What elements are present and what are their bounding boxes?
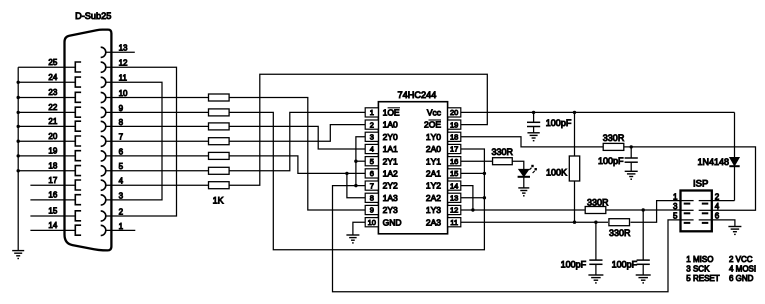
svg-text:2: 2 — [715, 192, 720, 201]
svg-text:100K: 100K — [546, 168, 567, 178]
svg-text:4: 4 — [370, 145, 374, 154]
svg-text:100pF: 100pF — [598, 156, 624, 166]
svg-text:25: 25 — [48, 58, 57, 67]
svg-text:8: 8 — [119, 118, 124, 127]
svg-text:17: 17 — [48, 176, 57, 185]
svg-text:10: 10 — [119, 89, 128, 98]
svg-text:20: 20 — [450, 108, 458, 117]
svg-text:5: 5 — [119, 162, 124, 171]
svg-text:13: 13 — [450, 194, 458, 203]
svg-text:4: 4 — [119, 177, 124, 186]
svg-text:2OE: 2OE — [424, 120, 441, 130]
svg-text:9: 9 — [370, 206, 374, 215]
svg-text:18: 18 — [48, 161, 57, 170]
svg-text:14: 14 — [48, 221, 57, 230]
svg-text:1Y3: 1Y3 — [426, 205, 441, 215]
svg-text:12: 12 — [450, 206, 458, 215]
svg-text:7: 7 — [370, 181, 374, 190]
svg-text:1Y0: 1Y0 — [426, 132, 441, 142]
svg-text:19: 19 — [48, 147, 57, 156]
svg-text:3: 3 — [673, 202, 678, 211]
svg-text:D-Sub25: D-Sub25 — [75, 11, 111, 21]
svg-text:14: 14 — [450, 181, 458, 190]
svg-text:1Y2: 1Y2 — [426, 181, 441, 191]
svg-text:2: 2 — [370, 120, 374, 129]
svg-text:7: 7 — [119, 133, 124, 142]
svg-text:5: 5 — [673, 212, 678, 221]
svg-text:330R: 330R — [609, 228, 631, 238]
svg-text:20: 20 — [48, 132, 57, 141]
svg-text:22: 22 — [48, 103, 57, 112]
svg-text:330R: 330R — [492, 147, 514, 157]
svg-text:2Y2: 2Y2 — [383, 181, 398, 191]
svg-text:2Y3: 2Y3 — [383, 205, 398, 215]
svg-text:Vcc: Vcc — [427, 108, 442, 118]
svg-text:2Y0: 2Y0 — [383, 132, 398, 142]
svg-text:1 MISO: 1 MISO — [686, 255, 713, 264]
svg-text:2Y1: 2Y1 — [383, 156, 398, 166]
svg-text:1A0: 1A0 — [383, 120, 398, 130]
svg-text:15: 15 — [48, 207, 57, 216]
svg-text:1A3: 1A3 — [383, 193, 398, 203]
svg-text:2A1: 2A1 — [426, 169, 441, 179]
svg-text:2: 2 — [119, 207, 124, 216]
svg-text:6 GND: 6 GND — [729, 274, 754, 283]
svg-text:12: 12 — [119, 59, 128, 68]
svg-text:11: 11 — [119, 74, 128, 83]
svg-text:2 VCC: 2 VCC — [729, 255, 753, 264]
svg-text:13: 13 — [119, 44, 128, 53]
svg-text:100pF: 100pF — [561, 260, 587, 270]
svg-text:1N4148: 1N4148 — [697, 157, 729, 167]
svg-text:ISP: ISP — [693, 179, 708, 190]
svg-text:4: 4 — [715, 202, 720, 211]
svg-text:74HC244: 74HC244 — [398, 90, 437, 100]
svg-text:24: 24 — [48, 73, 57, 82]
svg-text:6: 6 — [370, 169, 374, 178]
svg-text:1OE: 1OE — [383, 108, 400, 118]
svg-text:330R: 330R — [603, 133, 625, 143]
svg-text:2A0: 2A0 — [426, 144, 441, 154]
svg-text:GND: GND — [383, 217, 402, 227]
svg-text:1: 1 — [119, 222, 124, 231]
svg-text:6: 6 — [119, 147, 124, 156]
svg-text:1Y1: 1Y1 — [426, 156, 441, 166]
svg-text:15: 15 — [450, 169, 458, 178]
svg-text:3: 3 — [119, 191, 124, 200]
svg-text:5 RESET: 5 RESET — [686, 274, 719, 283]
svg-text:4 MOSI: 4 MOSI — [729, 265, 756, 274]
svg-text:330R: 330R — [587, 197, 609, 207]
svg-text:10: 10 — [368, 218, 376, 227]
svg-text:1: 1 — [370, 108, 374, 117]
svg-text:3: 3 — [370, 133, 374, 142]
svg-text:1K: 1K — [213, 195, 224, 205]
svg-text:21: 21 — [48, 117, 57, 126]
svg-text:9: 9 — [119, 104, 124, 113]
svg-text:1A2: 1A2 — [383, 169, 398, 179]
svg-text:2A3: 2A3 — [426, 217, 441, 227]
svg-text:3 SCK: 3 SCK — [686, 265, 710, 274]
svg-text:17: 17 — [450, 145, 458, 154]
svg-text:11: 11 — [450, 218, 458, 227]
svg-text:18: 18 — [450, 133, 458, 142]
svg-text:5: 5 — [370, 157, 374, 166]
svg-text:19: 19 — [450, 120, 458, 129]
svg-text:23: 23 — [48, 88, 57, 97]
svg-text:16: 16 — [450, 157, 458, 166]
svg-text:1A1: 1A1 — [383, 144, 398, 154]
svg-text:8: 8 — [370, 194, 374, 203]
svg-text:100pF: 100pF — [546, 118, 572, 128]
svg-text:2A2: 2A2 — [426, 193, 441, 203]
svg-text:16: 16 — [48, 191, 57, 200]
svg-text:100pF: 100pF — [612, 260, 638, 270]
svg-text:1: 1 — [673, 192, 678, 201]
